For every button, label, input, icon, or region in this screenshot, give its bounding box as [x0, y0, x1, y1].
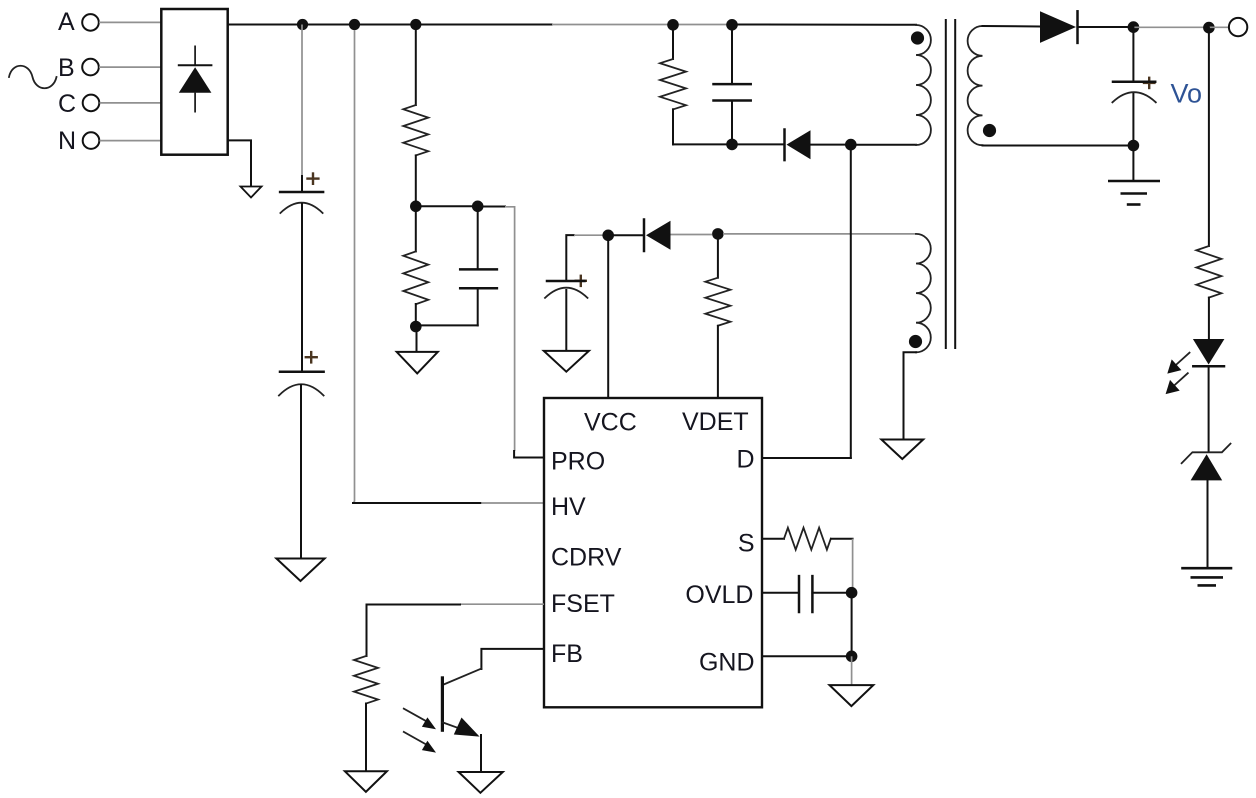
wire C3 to R2 node	[416, 324, 478, 326]
capacitor C7	[799, 576, 812, 612]
svg-text:A: A	[58, 8, 75, 36]
wire bus to R3	[672, 25, 674, 59]
capacitor C2	[279, 372, 324, 396]
ac source symbol	[9, 66, 57, 89]
terminal C circle	[83, 95, 100, 112]
wire node to aux winding	[723, 233, 916, 235]
wire C3 node to PRO corner	[478, 206, 505, 208]
resistor R1	[403, 105, 428, 155]
resistor R2	[403, 251, 428, 304]
wire R6 to elbow	[831, 538, 853, 540]
ground under R7	[345, 771, 387, 792]
resistor R7	[354, 656, 378, 704]
svg-text:OVLD: OVLD	[685, 581, 753, 609]
capacitor C5	[545, 281, 588, 298]
transistor Q1 opto emitter	[443, 722, 461, 729]
wire FSET black segment	[367, 605, 461, 657]
svg-text:GND: GND	[699, 649, 755, 677]
svg-text:D: D	[736, 446, 754, 474]
capacitor C4	[714, 84, 751, 100]
wire C3 top lead	[477, 206, 479, 269]
transformer T1 auxiliary phase dot	[909, 335, 922, 348]
node bus junction 2	[349, 19, 360, 30]
wire bus to HV	[354, 30, 355, 503]
transistor Q1 emitter arrow	[454, 718, 480, 737]
wire OVLD node to GND node	[851, 593, 853, 657]
wire R4 to VDET pin	[717, 326, 719, 398]
terminal B circle	[82, 59, 99, 76]
wire D pin horizontal	[762, 457, 851, 459]
wire snubber bottom	[673, 143, 783, 145]
wire GND pin stub	[762, 655, 852, 657]
wire S pin stub	[762, 538, 784, 540]
capacitor C1 plus	[306, 172, 319, 185]
svg-text:FSET: FSET	[551, 590, 615, 618]
wire C3 bottom lead	[477, 288, 479, 325]
op-amp U1 controller box	[544, 398, 762, 707]
wire R2 to node	[415, 304, 417, 327]
svg-text:CDRV: CDRV	[551, 544, 622, 572]
wire bus to R1	[415, 25, 417, 106]
LED D4 emission arrow 2	[1166, 373, 1188, 394]
earth ground zener	[1181, 568, 1232, 585]
transformer T1 core	[946, 20, 955, 348]
wire OVLD pin stub	[762, 592, 799, 594]
resistor R4	[705, 278, 730, 326]
capacitor C1	[280, 192, 323, 213]
wire bus to C1	[301, 25, 303, 177]
wire bus to C4	[731, 25, 733, 84]
resistor R6	[784, 528, 831, 550]
wire C2 to ground	[300, 385, 302, 558]
transistor Q1 opto collector	[443, 669, 482, 685]
svg-text:C: C	[58, 90, 76, 118]
wire secondary bottom	[983, 145, 1134, 147]
wire A to bridge	[99, 21, 161, 23]
node output	[1203, 22, 1215, 34]
wire bridge output	[228, 140, 251, 186]
transformer T1 secondary winding	[968, 26, 983, 145]
wire GND node to ground	[851, 656, 853, 684]
svg-text:Vo: Vo	[1171, 79, 1203, 109]
wire HV black segment	[353, 502, 481, 504]
node snubber junction	[726, 139, 738, 151]
node VCC junction	[602, 230, 614, 242]
transformer T1 primary winding	[916, 25, 931, 145]
wire C5 to ground	[565, 290, 567, 350]
wire C6 bottom lead	[1132, 94, 1134, 146]
wire HV gray segment	[481, 502, 544, 504]
terminal A circle	[82, 14, 99, 31]
wire C4 bottom lead	[731, 101, 733, 145]
wire D pin vertical	[850, 145, 852, 458]
wire C1 to C2	[301, 204, 303, 371]
ground under auxiliary	[881, 440, 923, 460]
wire C6 top lead	[1132, 27, 1134, 81]
diode D3	[1040, 11, 1078, 43]
node GND junction	[846, 651, 858, 663]
node bus junction 4	[667, 19, 679, 31]
wire N to bridge	[100, 140, 162, 142]
wire VCC pin	[607, 235, 609, 398]
LED D4	[1193, 339, 1225, 366]
ground under R2	[397, 352, 438, 374]
svg-text:VCC: VCC	[584, 409, 637, 437]
wire auxiliary to ground	[904, 352, 917, 439]
zener D5	[1182, 444, 1231, 481]
bridge rectifier BR1 diode	[179, 46, 212, 111]
wire zener to earth	[1207, 480, 1209, 567]
node R1 bottom	[410, 201, 422, 213]
wire PRO elbow	[514, 451, 544, 458]
resistor R3	[660, 59, 686, 109]
wire D1 to node	[811, 144, 851, 146]
wire LED to zener	[1208, 367, 1210, 452]
wire C6 node to earth	[1132, 146, 1134, 181]
wire C to bridge	[100, 102, 162, 104]
wire top bus black segment	[228, 24, 552, 26]
terminal output circle	[1229, 18, 1247, 36]
transistor Q1 opto bar	[441, 676, 444, 732]
diode D2	[644, 220, 671, 252]
wire emitter to ground	[480, 735, 482, 772]
transformer T1 primary phase dot	[911, 31, 924, 44]
wire output node to R5	[1208, 28, 1210, 246]
wire S elbow down	[852, 539, 854, 592]
svg-text:HV: HV	[551, 493, 586, 521]
earth ground output	[1108, 181, 1160, 205]
wire top bus gray segment	[552, 24, 732, 26]
wire R4 top lead	[717, 234, 719, 278]
ground under bridge	[241, 187, 262, 198]
node bus junction 5	[726, 19, 738, 31]
terminal N circle	[83, 132, 100, 149]
wire B to bridge	[99, 66, 161, 68]
LED D4 emission arrow 1	[1167, 353, 1189, 374]
wire D3 to C6 node	[1078, 26, 1134, 28]
wire D2 to node	[671, 234, 713, 236]
node bus junction 1	[297, 19, 308, 30]
node C3 top	[472, 201, 484, 213]
wire VCC junction to diode D2	[608, 234, 643, 236]
node OVLD junction	[846, 587, 858, 599]
capacitor C3	[460, 269, 497, 288]
wire R2 node to ground	[416, 327, 418, 352]
opto photon arrow 1	[404, 709, 436, 730]
wire output node to terminal	[1209, 26, 1229, 28]
wire node to C3 node	[416, 205, 478, 207]
opto photon arrow 2	[404, 732, 436, 753]
wire FSET gray segment	[460, 603, 544, 605]
diode D1	[785, 130, 811, 161]
ground under GND	[830, 685, 874, 706]
ground under C5	[544, 351, 589, 372]
ground under C2	[276, 559, 324, 582]
wire C6 node to output node	[1133, 26, 1209, 28]
svg-text:S: S	[738, 530, 755, 558]
svg-text:B: B	[58, 54, 75, 82]
svg-text:N: N	[58, 127, 76, 155]
node bus junction 3	[410, 19, 421, 30]
capacitor C5 plus	[575, 275, 588, 288]
wire R5 to LED	[1208, 298, 1210, 339]
capacitor C2 plus	[305, 351, 318, 364]
node R4 top	[712, 228, 724, 240]
wire FB pin	[481, 649, 544, 669]
node C6 bottom	[1128, 140, 1140, 152]
wire secondary top to D3	[983, 25, 1041, 28]
wire C7 to node	[812, 592, 851, 594]
node R2 bottom	[410, 321, 422, 333]
resistor R5	[1196, 246, 1221, 298]
node C6 top	[1128, 21, 1140, 33]
wire C5 elbow	[566, 235, 574, 281]
svg-text:FB: FB	[551, 640, 583, 668]
svg-text:PRO: PRO	[551, 448, 605, 476]
transformer T1 auxiliary winding	[916, 234, 931, 352]
svg-text:VDET: VDET	[682, 408, 749, 436]
transformer T1 secondary phase dot	[983, 124, 996, 137]
capacitor C6	[1112, 82, 1155, 103]
node primary bottom	[845, 139, 857, 151]
wire R7 to ground	[365, 704, 367, 771]
wire R1 to node	[415, 155, 417, 206]
capacitor C6 plus	[1143, 77, 1156, 90]
wire R3 bottom lead	[672, 109, 674, 144]
ground under opto	[459, 772, 503, 793]
wire node to R2	[415, 206, 417, 251]
wire top bus to transformer	[732, 24, 916, 26]
bridge rectifier BR1 box	[161, 9, 227, 155]
wire node to primary winding	[851, 144, 916, 146]
